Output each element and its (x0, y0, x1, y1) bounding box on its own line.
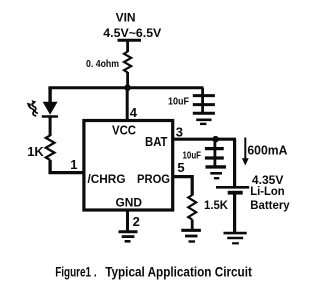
svg-text:2: 2 (133, 214, 140, 229)
svg-text:5: 5 (177, 160, 184, 175)
svg-text:Typical Application Circuit: Typical Application Circuit (105, 264, 252, 280)
svg-text:Li-Lon: Li-Lon (250, 184, 285, 198)
svg-text:0. 4ohm: 0. 4ohm (86, 58, 119, 70)
svg-text:3: 3 (176, 124, 183, 139)
svg-text:1K: 1K (27, 144, 44, 159)
svg-text:GND: GND (116, 196, 143, 210)
svg-text:4: 4 (130, 105, 138, 120)
svg-text:10uF: 10uF (168, 97, 189, 108)
svg-text:4.5V~6.5V: 4.5V~6.5V (103, 26, 162, 40)
svg-text:VCC: VCC (112, 123, 136, 138)
svg-text:1: 1 (70, 157, 77, 172)
svg-text:VIN: VIN (116, 10, 136, 24)
svg-text:/CHRG: /CHRG (88, 172, 126, 186)
svg-text:Battery: Battery (250, 198, 290, 212)
svg-text:PROG: PROG (137, 172, 170, 186)
svg-text:BAT: BAT (145, 134, 168, 149)
svg-text:600mA: 600mA (247, 143, 287, 157)
svg-text:Figure1 .: Figure1 . (55, 264, 96, 280)
svg-text:10uF: 10uF (183, 150, 202, 161)
svg-text:1.5K: 1.5K (204, 198, 228, 212)
